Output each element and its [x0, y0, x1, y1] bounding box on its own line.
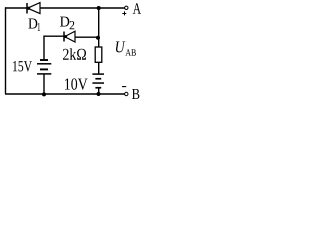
wire top rail left segment	[5, 7, 27, 9]
label 2k ohm	[63, 48, 86, 60]
label D1 letter	[28, 19, 37, 29]
label A	[133, 3, 141, 14]
label 10V	[65, 78, 88, 89]
wire bottom rail	[5, 93, 125, 95]
battery 10V	[92, 74, 104, 88]
label 15V	[13, 61, 32, 72]
wire D2 branch horizontal right	[75, 36, 99, 38]
polarity plus	[122, 11, 126, 15]
junction top of right branch	[97, 6, 101, 10]
battery 15V	[37, 60, 51, 74]
junction right branch to bottom rail	[97, 92, 101, 96]
resistor 2k ohm	[95, 47, 102, 62]
diode D2	[64, 31, 75, 42]
label D2 letter	[60, 17, 69, 27]
wire left rail	[5, 7, 7, 94]
wire right branch top	[98, 8, 100, 47]
junction 15V branch to bottom rail	[42, 92, 46, 96]
terminal A circle	[125, 6, 128, 9]
label U of UAB	[116, 42, 126, 53]
wire 15V branch vertical top	[43, 36, 45, 60]
label AB subscript	[125, 49, 135, 56]
wire 15V branch vertical bottom	[43, 74, 45, 94]
label B	[132, 89, 139, 99]
polarity minus	[122, 86, 126, 88]
wire right branch middle	[98, 62, 100, 74]
terminal B circle	[125, 92, 128, 95]
wire D2 branch horizontal left	[44, 35, 64, 37]
junction D2 to right branch	[96, 36, 100, 40]
label D1 subscript 1	[38, 23, 41, 31]
label D2 subscript 2	[70, 21, 75, 29]
diode D1	[27, 3, 40, 14]
wire right branch bottom	[98, 88, 100, 94]
wire top rail right segment	[40, 7, 125, 9]
